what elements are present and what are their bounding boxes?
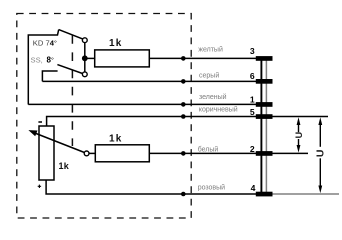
svg-text:желтый: желтый <box>198 45 223 53</box>
svg-text:зеленый: зеленый <box>199 93 227 101</box>
svg-text:SS, 8°: SS, 8° <box>31 55 54 64</box>
svg-text:U: U <box>294 132 304 139</box>
svg-text:розовый: розовый <box>198 184 225 192</box>
svg-text:серый: серый <box>199 71 219 79</box>
svg-text:KD 74°: KD 74° <box>33 39 57 48</box>
svg-text:5: 5 <box>250 107 255 117</box>
svg-text:3: 3 <box>250 46 255 56</box>
svg-text:коричневый: коричневый <box>199 106 238 114</box>
svg-text:U: U <box>315 150 327 158</box>
svg-text:1k: 1k <box>59 161 70 171</box>
svg-text:1k: 1k <box>109 38 123 49</box>
svg-text:4: 4 <box>251 183 256 193</box>
svg-text:белый: белый <box>198 145 219 153</box>
svg-text:1: 1 <box>250 94 255 104</box>
svg-text:1k: 1k <box>109 133 123 144</box>
svg-text:6: 6 <box>250 71 255 81</box>
svg-text:2: 2 <box>250 144 255 154</box>
